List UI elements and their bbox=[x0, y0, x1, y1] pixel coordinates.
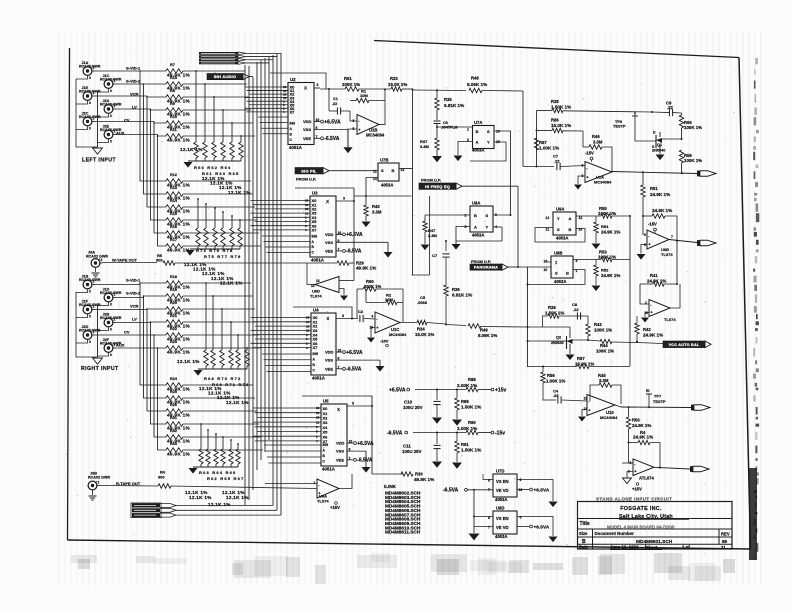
svg-text:12.1K 1%: 12.1K 1% bbox=[189, 495, 212, 500]
svg-text:R51: R51 bbox=[650, 186, 658, 191]
svg-text:VE VD: VE VD bbox=[496, 488, 509, 493]
svg-text:+15V: +15V bbox=[330, 505, 340, 510]
svg-text:VDD: VDD bbox=[303, 119, 312, 124]
svg-text:86: 86 bbox=[722, 539, 728, 544]
svg-text:2: 2 bbox=[93, 117, 95, 121]
svg-text:11: 11 bbox=[721, 545, 726, 550]
svg-text:TL074: TL074 bbox=[661, 252, 673, 257]
svg-text:TL074: TL074 bbox=[310, 294, 322, 299]
svg-text:U2: U2 bbox=[290, 77, 296, 82]
svg-text:49.9K 1%: 49.9K 1% bbox=[167, 350, 191, 355]
svg-text:R33: R33 bbox=[390, 76, 398, 81]
svg-text:VEE: VEE bbox=[336, 457, 344, 462]
svg-text:4053A: 4053A bbox=[495, 534, 507, 539]
svg-text:U7A: U7A bbox=[474, 120, 482, 125]
svg-text:4053A: 4053A bbox=[556, 236, 568, 241]
svg-text:6: 6 bbox=[353, 119, 355, 123]
svg-text:3: 3 bbox=[110, 303, 112, 307]
svg-text:4053A: 4053A bbox=[472, 233, 484, 238]
svg-text:VCR: VCR bbox=[130, 92, 139, 97]
svg-text:24.9K 1%: 24.9K 1% bbox=[643, 333, 663, 338]
svg-text:S: S bbox=[555, 271, 558, 276]
svg-text:12: 12 bbox=[584, 407, 588, 411]
svg-text:R13: R13 bbox=[170, 186, 177, 190]
svg-text:MC34084: MC34084 bbox=[366, 133, 385, 138]
svg-text:R75 R77 R79: R75 R77 R79 bbox=[204, 254, 241, 259]
svg-text:RIGHT INPUT: RIGHT INPUT bbox=[81, 366, 119, 372]
svg-text:8: 8 bbox=[488, 479, 490, 483]
svg-text:A: A bbox=[569, 216, 572, 221]
svg-text:AUX: AUX bbox=[116, 131, 125, 136]
svg-text:200K 1%: 200K 1% bbox=[342, 82, 360, 87]
svg-text:U8D: U8D bbox=[496, 506, 504, 511]
svg-text:-15v: -15v bbox=[495, 431, 505, 437]
svg-text:R18: R18 bbox=[170, 275, 177, 279]
svg-text:R35: R35 bbox=[444, 97, 452, 102]
svg-text:14: 14 bbox=[546, 216, 550, 220]
svg-text:+6.5VA: +6.5VA bbox=[324, 119, 341, 125]
svg-text:R50: R50 bbox=[632, 418, 640, 423]
svg-text:AUX: AUX bbox=[116, 343, 125, 348]
svg-text:R21: R21 bbox=[170, 314, 177, 318]
svg-text:Sheet: Sheet bbox=[646, 545, 658, 550]
svg-text:49.9K 1%: 49.9K 1% bbox=[414, 477, 434, 482]
svg-text:FROM U.P.: FROM U.P. bbox=[296, 177, 316, 182]
svg-text:Y: Y bbox=[487, 140, 490, 145]
svg-text:13: 13 bbox=[584, 397, 588, 401]
svg-text:R34: R34 bbox=[417, 327, 425, 332]
svg-text:3: 3 bbox=[89, 127, 91, 131]
svg-text:3: 3 bbox=[89, 315, 91, 319]
svg-text:C6: C6 bbox=[443, 121, 448, 125]
svg-text:4053A: 4053A bbox=[472, 148, 484, 153]
svg-text:VSS: VSS bbox=[325, 240, 333, 245]
svg-text:TESTP: TESTP bbox=[653, 399, 666, 404]
svg-text:13: 13 bbox=[316, 406, 320, 410]
svg-text:RI: RI bbox=[646, 389, 649, 393]
svg-text:X: X bbox=[304, 86, 307, 91]
svg-text:3.3M: 3.3M bbox=[428, 233, 438, 238]
svg-text:U3: U3 bbox=[312, 191, 318, 196]
svg-text:R24: R24 bbox=[170, 377, 178, 381]
svg-text:12.1K 1%: 12.1K 1% bbox=[180, 147, 203, 152]
svg-text:HI FREQ EQ: HI FREQ EQ bbox=[425, 184, 450, 189]
svg-text:11: 11 bbox=[373, 170, 377, 174]
svg-text:2: 2 bbox=[465, 214, 467, 218]
svg-text:3: 3 bbox=[110, 114, 112, 118]
svg-text:100K 1%: 100K 1% bbox=[596, 349, 614, 354]
svg-text:R52: R52 bbox=[601, 268, 609, 273]
svg-text:24.9K 1%: 24.9K 1% bbox=[601, 230, 620, 235]
svg-text:6.81K 1%: 6.81K 1% bbox=[452, 293, 472, 298]
svg-text:.0047FLM: .0047FLM bbox=[441, 126, 457, 130]
svg-text:R36: R36 bbox=[452, 287, 460, 292]
svg-text:R74 R76 R78: R74 R76 R78 bbox=[196, 248, 233, 253]
svg-text:12: 12 bbox=[579, 216, 583, 220]
svg-text:2: 2 bbox=[93, 280, 95, 284]
svg-text:R54: R54 bbox=[601, 224, 609, 229]
svg-text:49.9K 1%: 49.9K 1% bbox=[167, 452, 191, 457]
svg-text:5: 5 bbox=[465, 225, 467, 229]
svg-text:SIG FIL: SIG FIL bbox=[301, 168, 317, 173]
svg-text:1.50K 1%: 1.50K 1% bbox=[461, 448, 481, 453]
svg-text:R26: R26 bbox=[170, 403, 177, 407]
svg-text:R22: R22 bbox=[170, 327, 177, 331]
svg-text:R88: R88 bbox=[468, 377, 476, 382]
svg-text:3: 3 bbox=[110, 328, 112, 332]
svg-text:100K 1%: 100K 1% bbox=[684, 125, 702, 130]
svg-text:100K 1%: 100K 1% bbox=[594, 328, 612, 333]
svg-text:4051A: 4051A bbox=[312, 376, 326, 381]
svg-text:X: X bbox=[327, 316, 330, 321]
svg-text:4051A: 4051A bbox=[322, 467, 336, 472]
svg-text:10M: 10M bbox=[360, 93, 368, 98]
svg-text:12: 12 bbox=[316, 420, 320, 424]
svg-text:R17: R17 bbox=[170, 238, 177, 242]
svg-text:U9A: U9A bbox=[556, 207, 564, 212]
svg-text:U7B: U7B bbox=[380, 158, 388, 163]
svg-text:24.9K 1%: 24.9K 1% bbox=[650, 192, 670, 197]
svg-text:-6.5VA: -6.5VA bbox=[324, 136, 340, 142]
svg-text:3: 3 bbox=[343, 197, 345, 201]
svg-text:R42: R42 bbox=[643, 327, 651, 332]
svg-text:Y: Y bbox=[557, 216, 560, 221]
svg-text:C7: C7 bbox=[432, 253, 438, 258]
svg-text:TL074: TL074 bbox=[664, 317, 676, 322]
svg-text:3: 3 bbox=[352, 402, 354, 406]
svg-text:LV: LV bbox=[132, 105, 137, 110]
svg-text:B: B bbox=[474, 213, 477, 218]
svg-text:R48: R48 bbox=[471, 76, 479, 81]
svg-text:R86: R86 bbox=[551, 118, 559, 123]
svg-text:VDD: VDD bbox=[336, 441, 345, 446]
svg-text:VSS: VSS bbox=[336, 449, 344, 454]
svg-text:Document Number: Document Number bbox=[595, 531, 635, 536]
svg-text:-15V: -15V bbox=[585, 151, 594, 156]
svg-text:Date: Date bbox=[579, 545, 589, 550]
svg-text:.0068: .0068 bbox=[417, 300, 428, 305]
svg-text:R7: R7 bbox=[170, 63, 175, 67]
svg-text:X: X bbox=[337, 407, 340, 412]
svg-text:RCAX2 GWR: RCAX2 GWR bbox=[88, 476, 110, 480]
svg-text:R20: R20 bbox=[170, 301, 177, 305]
svg-text:1: 1 bbox=[314, 481, 316, 485]
svg-text:3: 3 bbox=[110, 89, 112, 93]
svg-text:PANORAMA: PANORAMA bbox=[474, 265, 498, 270]
svg-text:12.1K 1%: 12.1K 1% bbox=[208, 502, 231, 507]
svg-text:2: 2 bbox=[98, 481, 100, 485]
svg-text:3.3M: 3.3M bbox=[420, 144, 430, 149]
svg-text:2: 2 bbox=[93, 91, 95, 95]
svg-text:1.50K 1%: 1.50K 1% bbox=[461, 405, 481, 410]
svg-text:2: 2 bbox=[114, 318, 116, 322]
svg-text:3: 3 bbox=[110, 353, 112, 357]
svg-text:B: B bbox=[569, 227, 572, 232]
svg-text:R56: R56 bbox=[547, 373, 555, 378]
svg-text:100K 1%: 100K 1% bbox=[598, 211, 616, 216]
svg-text:-6.5VA: -6.5VA bbox=[443, 488, 459, 494]
svg-text:C1: C1 bbox=[333, 97, 338, 101]
svg-text:2: 2 bbox=[114, 293, 116, 297]
svg-text:Salt Lake City, Utah: Salt Lake City, Utah bbox=[619, 514, 673, 520]
svg-text:VDD: VDD bbox=[325, 350, 334, 355]
svg-text:U7D: U7D bbox=[496, 469, 504, 474]
svg-text:16: 16 bbox=[519, 488, 523, 492]
svg-text:2: 2 bbox=[645, 301, 647, 305]
svg-text:R46: R46 bbox=[592, 134, 600, 139]
svg-text:12.1K 1%: 12.1K 1% bbox=[220, 280, 243, 285]
svg-text:24.9K 1%: 24.9K 1% bbox=[601, 273, 620, 278]
svg-text:B: B bbox=[566, 271, 569, 276]
svg-text:14: 14 bbox=[316, 411, 320, 415]
svg-text:R38: R38 bbox=[551, 99, 559, 104]
svg-text:VDD: VDD bbox=[325, 232, 334, 237]
svg-text:Q1: Q1 bbox=[657, 143, 662, 147]
svg-text:-15V: -15V bbox=[648, 222, 657, 227]
svg-text:-6.5VA: -6.5VA bbox=[346, 367, 362, 373]
svg-text:1.50K 1%: 1.50K 1% bbox=[551, 105, 571, 110]
svg-text:4053A: 4053A bbox=[495, 497, 507, 502]
svg-text:R13: R13 bbox=[170, 76, 177, 80]
svg-text:C10: C10 bbox=[404, 400, 413, 405]
svg-text:TP7: TP7 bbox=[654, 394, 661, 399]
svg-text:3: 3 bbox=[89, 101, 91, 105]
svg-text:14: 14 bbox=[311, 284, 315, 288]
svg-text:8.06K 1%: 8.06K 1% bbox=[467, 82, 487, 87]
svg-text:TL074: TL074 bbox=[317, 499, 329, 504]
svg-text:2: 2 bbox=[93, 305, 95, 309]
svg-text:4051A: 4051A bbox=[311, 258, 325, 263]
svg-text:3: 3 bbox=[89, 290, 91, 294]
svg-text:15: 15 bbox=[316, 416, 320, 420]
svg-text:LEFT INPUT: LEFT INPUT bbox=[82, 158, 116, 164]
svg-text:R10: R10 bbox=[170, 115, 177, 119]
svg-text:VSS: VSS bbox=[325, 358, 333, 363]
svg-text:ILINK: ILINK bbox=[384, 484, 397, 489]
svg-text:10: 10 bbox=[544, 268, 548, 272]
svg-text:VSS: VSS bbox=[303, 127, 311, 132]
svg-text:R90: R90 bbox=[468, 420, 476, 425]
svg-text:FROM U.P.: FROM U.P. bbox=[421, 178, 441, 183]
svg-text:B: B bbox=[392, 168, 395, 173]
svg-text:R89: R89 bbox=[461, 399, 469, 404]
svg-text:R9: R9 bbox=[170, 102, 175, 106]
svg-text:10: 10 bbox=[496, 130, 500, 134]
svg-text:3: 3 bbox=[89, 340, 91, 344]
svg-text:3.3M: 3.3M bbox=[599, 378, 609, 383]
svg-text:24.9K 1%: 24.9K 1% bbox=[632, 423, 651, 428]
svg-text:R12: R12 bbox=[170, 173, 177, 177]
svg-text:June 10, 1993: June 10, 1993 bbox=[610, 545, 639, 550]
svg-text:2: 2 bbox=[93, 66, 95, 70]
svg-text:11: 11 bbox=[546, 228, 550, 232]
svg-text:R8: R8 bbox=[170, 89, 175, 93]
svg-text:+6.5VA: +6.5VA bbox=[534, 488, 550, 494]
svg-text:R43: R43 bbox=[594, 322, 602, 327]
svg-text:1.50K 1%: 1.50K 1% bbox=[545, 311, 564, 316]
svg-text:4053A: 4053A bbox=[381, 183, 393, 188]
svg-text:R87: R87 bbox=[539, 140, 547, 145]
svg-text:9: 9 bbox=[372, 315, 374, 319]
svg-text:STAND ALONE INPUT CIRCUIT: STAND ALONE INPUT CIRCUIT bbox=[596, 497, 672, 502]
svg-text:12.1K 1%: 12.1K 1% bbox=[177, 359, 200, 364]
svg-text:INH: INH bbox=[290, 121, 296, 125]
svg-text:15.0K 1%: 15.0K 1% bbox=[388, 82, 407, 87]
svg-text:VCC AUTO BAL: VCC AUTO BAL bbox=[669, 343, 700, 347]
svg-text:-6.5VA: -6.5VA bbox=[387, 430, 403, 436]
svg-text:S: S bbox=[486, 213, 489, 218]
svg-text:.22: .22 bbox=[554, 159, 560, 164]
svg-text:VEE: VEE bbox=[325, 366, 333, 371]
svg-text:300: 300 bbox=[158, 475, 165, 480]
svg-text:INH AUDIO: INH AUDIO bbox=[214, 74, 237, 79]
svg-text:VCR: VCR bbox=[130, 304, 139, 309]
svg-text:S: S bbox=[487, 129, 490, 134]
svg-text:R16: R16 bbox=[170, 225, 177, 229]
svg-text:LV: LV bbox=[132, 317, 137, 322]
svg-text:+6.5VA: +6.5VA bbox=[346, 350, 363, 356]
svg-text:2: 2 bbox=[114, 104, 116, 108]
svg-text:X: X bbox=[326, 199, 329, 204]
svg-text:S-VID-2: S-VID-2 bbox=[126, 79, 141, 84]
svg-text:4053A: 4053A bbox=[554, 279, 566, 284]
svg-text:S-VID-2: S-VID-2 bbox=[126, 291, 141, 296]
svg-text:X7: X7 bbox=[312, 228, 318, 233]
svg-text:REV: REV bbox=[721, 531, 730, 536]
svg-text:100K 1%: 100K 1% bbox=[684, 158, 702, 163]
svg-text:MODEL 4 MAIN BOARD 64-72KW: MODEL 4 MAIN BOARD 64-72KW bbox=[607, 524, 675, 529]
svg-text:24.9K 1%: 24.9K 1% bbox=[633, 435, 653, 440]
svg-text:15.0K 1%: 15.0K 1% bbox=[551, 123, 571, 128]
svg-text:R41: R41 bbox=[650, 273, 658, 278]
svg-text:.22: .22 bbox=[573, 307, 579, 312]
svg-text:3: 3 bbox=[110, 140, 112, 144]
svg-text:C11: C11 bbox=[403, 444, 411, 449]
svg-text:24.9K 1%: 24.9K 1% bbox=[652, 208, 672, 213]
svg-text:12.1K 1%: 12.1K 1% bbox=[228, 190, 251, 195]
svg-text:2N5640: 2N5640 bbox=[652, 149, 665, 153]
svg-text:INH: INH bbox=[312, 234, 318, 238]
svg-text:1.00K 1%: 1.00K 1% bbox=[546, 379, 565, 384]
svg-text:U9B: U9B bbox=[554, 251, 562, 256]
svg-text:INH: INH bbox=[313, 352, 319, 356]
svg-text:VEE: VEE bbox=[303, 136, 311, 141]
svg-text:3: 3 bbox=[89, 76, 91, 80]
svg-text:ATL074: ATL074 bbox=[639, 476, 654, 481]
svg-text:S-VID-1: S-VID-1 bbox=[126, 66, 141, 71]
svg-text:R32: R32 bbox=[170, 429, 177, 433]
svg-text:100K 1%: 100K 1% bbox=[598, 255, 616, 260]
svg-text:Q2: Q2 bbox=[556, 336, 561, 340]
svg-text:6: 6 bbox=[644, 233, 646, 237]
svg-text:1 of: 1 of bbox=[682, 545, 690, 550]
svg-text:MC34084: MC34084 bbox=[600, 415, 618, 420]
svg-text:2N5640: 2N5640 bbox=[551, 341, 564, 345]
svg-text:U8A: U8A bbox=[472, 201, 480, 206]
svg-text:+15v: +15v bbox=[495, 388, 506, 394]
svg-text:7: 7 bbox=[671, 235, 673, 239]
svg-text:13: 13 bbox=[316, 279, 320, 283]
svg-text:.22: .22 bbox=[332, 102, 337, 106]
svg-text:S: S bbox=[557, 227, 560, 232]
svg-text:R61: R61 bbox=[344, 76, 352, 81]
svg-text:Size: Size bbox=[579, 531, 588, 536]
svg-text:W-TAPE OUT: W-TAPE OUT bbox=[112, 258, 138, 263]
svg-text:R91: R91 bbox=[461, 442, 469, 447]
svg-text:VS EN: VS EN bbox=[496, 479, 509, 484]
svg-text:A: A bbox=[476, 140, 479, 145]
svg-text:VEE: VEE bbox=[325, 248, 333, 253]
svg-text:+6.5VA: +6.5VA bbox=[357, 441, 374, 447]
svg-text:X7: X7 bbox=[313, 345, 319, 350]
svg-text:VS EN: VS EN bbox=[496, 516, 509, 521]
svg-text:U4: U4 bbox=[313, 308, 319, 313]
svg-text:3.3M: 3.3M bbox=[593, 140, 603, 145]
svg-text:MD4M8611.SCH: MD4M8611.SCH bbox=[385, 530, 421, 535]
svg-text:R15: R15 bbox=[170, 212, 177, 216]
svg-text:Y: Y bbox=[486, 225, 489, 230]
svg-text:+6.5VA: +6.5VA bbox=[534, 525, 550, 531]
svg-text:6.81K 1%: 6.81K 1% bbox=[444, 103, 464, 108]
svg-text:R63 R64 R66: R63 R64 R66 bbox=[199, 470, 236, 475]
svg-text:2: 2 bbox=[582, 164, 584, 168]
svg-text:CV: CV bbox=[124, 330, 130, 335]
svg-text:4051A: 4051A bbox=[289, 145, 303, 150]
svg-text:R87: R87 bbox=[577, 356, 585, 361]
svg-text:R25: R25 bbox=[170, 390, 177, 394]
svg-text:VE VD: VE VD bbox=[496, 525, 509, 530]
svg-text:FROM U.P.: FROM U.P. bbox=[471, 259, 491, 264]
svg-text:R19: R19 bbox=[170, 288, 177, 292]
svg-text:15.0K 1%: 15.0K 1% bbox=[415, 332, 434, 337]
svg-text:CV: CV bbox=[124, 118, 130, 123]
svg-text:+6.5VA: +6.5VA bbox=[346, 232, 363, 238]
svg-text:100U 25V: 100U 25V bbox=[403, 405, 423, 410]
svg-text:-15V: -15V bbox=[380, 339, 389, 344]
svg-text:2: 2 bbox=[101, 258, 103, 262]
svg-text:Title: Title bbox=[580, 521, 590, 527]
svg-text:B: B bbox=[476, 129, 479, 134]
svg-text:8.06K 1%: 8.06K 1% bbox=[478, 333, 497, 338]
svg-text:R30: R30 bbox=[415, 472, 423, 477]
svg-text:TESTP: TESTP bbox=[613, 124, 626, 129]
svg-text:A: A bbox=[474, 225, 477, 230]
svg-text:100U 25V: 100U 25V bbox=[402, 449, 422, 454]
svg-text:5: 5 bbox=[644, 243, 646, 247]
svg-text:6: 6 bbox=[520, 478, 522, 482]
svg-text:FOSGATE INC.: FOSGATE INC. bbox=[620, 506, 662, 512]
svg-text:3.3M: 3.3M bbox=[372, 210, 382, 215]
svg-text:R39: R39 bbox=[548, 305, 556, 310]
svg-text:1.00K 1%: 1.00K 1% bbox=[539, 146, 559, 151]
svg-text:49.9K 1%: 49.9K 1% bbox=[167, 138, 191, 143]
svg-text:INH: INH bbox=[323, 443, 329, 447]
svg-text:R49: R49 bbox=[480, 328, 488, 333]
svg-text:300: 300 bbox=[156, 258, 163, 263]
svg-text:1: 1 bbox=[467, 128, 469, 132]
svg-text:+6.5VA: +6.5VA bbox=[389, 387, 406, 393]
svg-text:R11: R11 bbox=[170, 128, 177, 132]
svg-text:X7: X7 bbox=[290, 109, 296, 114]
svg-text:R33: R33 bbox=[170, 442, 177, 446]
svg-text:U5: U5 bbox=[323, 399, 329, 404]
svg-text:R68 R70 R72: R68 R70 R72 bbox=[204, 376, 241, 381]
svg-text:R40: R40 bbox=[372, 204, 380, 209]
svg-text:R14: R14 bbox=[170, 199, 178, 203]
svg-text:3: 3 bbox=[342, 314, 344, 318]
svg-text:2: 2 bbox=[93, 330, 95, 334]
svg-text:-6.5VA: -6.5VA bbox=[357, 458, 373, 464]
